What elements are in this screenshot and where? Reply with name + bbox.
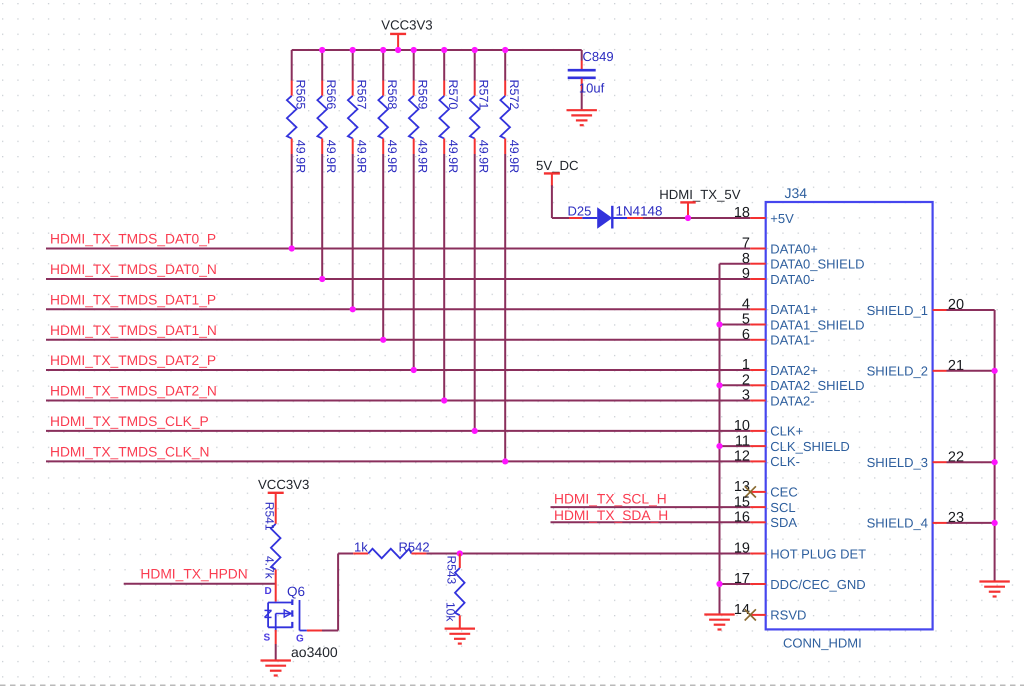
wire shield stub pin17 (720, 583, 751, 585)
pin 19 HOT PLUG DET (734, 541, 866, 562)
wire net HDMI_TX_TMDS_DAT2_P (46, 369, 750, 371)
svg-text:18: 18 (734, 205, 750, 221)
resistor R542 1k (338, 539, 429, 558)
wire page boundary dashes (0, 684, 1024, 686)
svg-text:C849: C849 (583, 49, 614, 64)
wire SHIELD_1 to shield ground (947, 309, 995, 311)
svg-text:15: 15 (734, 494, 750, 510)
node HDMI_TX_SDA_H label (554, 508, 668, 523)
pin 22 SHIELD_3 (867, 449, 964, 470)
svg-text:SHIELD_2: SHIELD_2 (867, 364, 928, 379)
pin 21 SHIELD_2 (867, 358, 964, 379)
svg-text:D25: D25 (568, 204, 592, 219)
connector J34 body (766, 185, 933, 651)
svg-text:10: 10 (734, 418, 750, 434)
svg-text:HDMI_TX_TMDS_DAT2_N: HDMI_TX_TMDS_DAT2_N (50, 384, 217, 399)
svg-text:DATA2_SHIELD: DATA2_SHIELD (770, 378, 864, 393)
node HDMI_TX_TMDS_DAT0_N label (50, 262, 217, 277)
wire net HDMI_TX_SCL_H (551, 506, 751, 508)
svg-text:5: 5 (742, 312, 750, 328)
node TMDS row junctions (289, 245, 509, 464)
resistor R569 49.9R (409, 50, 429, 370)
svg-text:17: 17 (734, 571, 750, 587)
resistor R566 49.9R (317, 50, 337, 279)
node junction R543 top (457, 550, 463, 556)
pin 4 DATA1+ (742, 297, 818, 318)
svg-text:R572: R572 (507, 80, 521, 110)
wire Q6 source to ground (275, 644, 277, 661)
pin 18 +5V (734, 205, 794, 226)
svg-text:DATA2-: DATA2- (770, 393, 814, 408)
resistor R571 49.9R (470, 50, 490, 431)
wire shield stub pin11 (720, 445, 751, 447)
svg-text:HDMI_TX_5V: HDMI_TX_5V (659, 187, 741, 202)
node junction HDMI_TX_5V (685, 215, 691, 221)
svg-text:49.9R: 49.9R (476, 140, 490, 173)
svg-text:S: S (264, 633, 271, 644)
svg-text:CLK-: CLK- (770, 454, 800, 469)
svg-text:SCL: SCL (770, 500, 795, 515)
svg-text:CLK+: CLK+ (770, 424, 803, 439)
resistor R570 49.9R (439, 50, 459, 401)
svg-text:13: 13 (734, 479, 750, 495)
svg-text:10uf: 10uf (579, 81, 605, 96)
svg-text:HDMI_TX_TMDS_DAT0_N: HDMI_TX_TMDS_DAT0_N (50, 262, 217, 277)
wire shield stub pin5 (720, 324, 751, 326)
svg-text:G: G (296, 634, 304, 645)
svg-text:49.9R: 49.9R (293, 140, 307, 173)
pin 11 CLK_SHIELD (735, 433, 850, 454)
pin 5 DATA1_SHIELD (742, 312, 865, 333)
resistor R541 4.7k (263, 502, 281, 602)
wire DATA0_SHIELD net (pin 8 to shield bus) (720, 264, 751, 615)
node HDMI_TX_TMDS_DAT1_N label (50, 323, 217, 338)
pin 10 CLK+ (734, 418, 803, 439)
ground under R543 (445, 629, 475, 644)
svg-text:3: 3 (742, 388, 750, 404)
svg-text:1k: 1k (354, 539, 368, 554)
svg-text:14: 14 (734, 602, 750, 618)
svg-text:1: 1 (742, 357, 750, 373)
pin 2 DATA2_SHIELD (742, 373, 865, 394)
pin 8 DATA0_SHIELD (742, 251, 865, 272)
wire 5V_DC to D25 (552, 185, 569, 218)
svg-text:SHIELD_3: SHIELD_3 (867, 455, 928, 470)
svg-text:49.9R: 49.9R (324, 140, 338, 173)
node right shield junctions (992, 368, 998, 526)
svg-text:10k: 10k (444, 602, 458, 622)
svg-text:+5V: +5V (770, 211, 794, 226)
node HDMI_TX_TMDS_DAT0_P label (50, 232, 216, 247)
svg-text:ao3400: ao3400 (291, 644, 338, 660)
svg-text:VCC3V3: VCC3V3 (381, 17, 432, 32)
resistor R567 49.9R (348, 50, 368, 309)
node HDMI_TX_TMDS_DAT2_P label (50, 353, 216, 368)
svg-text:5V_DC: 5V_DC (536, 158, 579, 173)
svg-text:HDMI_TX_SDA_H: HDMI_TX_SDA_H (554, 508, 668, 523)
svg-text:J34: J34 (785, 185, 808, 201)
svg-text:R571: R571 (476, 80, 490, 110)
pin 17 DDC/CEC_GND (734, 571, 866, 592)
svg-text:4.7k: 4.7k (263, 556, 277, 580)
svg-text:49.9R: 49.9R (354, 140, 368, 173)
ground shield bus (704, 615, 734, 630)
svg-text:49.9R: 49.9R (385, 140, 399, 173)
wire net HDMI_TX_TMDS_DAT1_P (46, 308, 750, 310)
svg-text:R567: R567 (354, 80, 368, 110)
ground under C849 (567, 110, 597, 125)
svg-text:11: 11 (735, 433, 750, 449)
svg-text:R565: R565 (293, 80, 307, 110)
svg-text:49.9R: 49.9R (446, 140, 460, 173)
wire net HDMI_TX_TMDS_DAT0_N (46, 278, 750, 280)
wire net HDMI_TX_SDA_H (551, 521, 751, 523)
svg-text:12: 12 (734, 449, 750, 465)
power symbol VCC3V3 (bottom) (258, 477, 309, 524)
ground right shield (979, 582, 1009, 597)
svg-text:DATA1+: DATA1+ (770, 302, 818, 317)
svg-text:Q6: Q6 (287, 584, 305, 599)
svg-text:SHIELD_4: SHIELD_4 (867, 516, 928, 531)
svg-text:9: 9 (742, 266, 750, 282)
svg-text:DATA1_SHIELD: DATA1_SHIELD (770, 317, 864, 332)
svg-text:HDMI_TX_SCL_H: HDMI_TX_SCL_H (554, 492, 667, 507)
svg-text:HDMI_TX_HPDN: HDMI_TX_HPDN (140, 567, 247, 582)
svg-text:VCC3V3: VCC3V3 (258, 477, 309, 492)
svg-text:CLK_SHIELD: CLK_SHIELD (770, 439, 849, 454)
svg-text:DATA1-: DATA1- (770, 333, 814, 348)
resistor R572 49.9R (500, 50, 520, 461)
svg-text:HDMI_TX_TMDS_DAT1_N: HDMI_TX_TMDS_DAT1_N (50, 323, 217, 338)
power symbol HDMI_TX_5V (659, 187, 741, 218)
power symbol 5V_DC (536, 158, 579, 186)
pin 15 SCL (734, 494, 796, 515)
pin 9 DATA0- (742, 266, 815, 287)
node HDMI_TX_SCL_H label (554, 492, 667, 507)
wire SHIELD_4 to shield ground (947, 522, 995, 524)
wire D25 to pin 18 (643, 217, 750, 219)
transistor Q6 ao3400 (264, 584, 338, 660)
pin 14 RSVD (734, 602, 807, 623)
svg-text:R566: R566 (324, 80, 338, 110)
ground under Q6 (261, 661, 291, 676)
svg-text:4: 4 (742, 297, 750, 313)
svg-text:19: 19 (734, 541, 750, 557)
wire SHIELD_2 to shield ground (947, 370, 995, 372)
svg-text:49.9R: 49.9R (415, 140, 429, 173)
svg-text:HDMI_TX_TMDS_DAT2_P: HDMI_TX_TMDS_DAT2_P (50, 353, 216, 368)
svg-text:R541: R541 (263, 502, 277, 531)
wire net HDMI_TX_TMDS_DAT1_N (46, 339, 750, 341)
wire R542 to pin 19 (426, 553, 750, 555)
pin 12 CLK- (734, 449, 800, 470)
svg-text:DATA0+: DATA0+ (770, 241, 818, 256)
wire net HDMI_TX_TMDS_DAT0_P (46, 248, 750, 250)
svg-text:DATA0-: DATA0- (770, 272, 814, 287)
svg-text:1N4148: 1N4148 (616, 204, 663, 219)
resistor R565 49.9R (287, 50, 307, 249)
node HDMI_TX_TMDS_DAT2_N label (50, 384, 217, 399)
node HDMI_TX_TMDS_DAT1_P label (50, 292, 216, 307)
svg-text:R543: R543 (445, 556, 459, 585)
wire shield stub pin2 (720, 384, 751, 386)
svg-text:6: 6 (742, 327, 750, 343)
node HDMI_TX_HPDN label (140, 567, 247, 582)
svg-text:HDMI_TX_TMDS_DAT1_P: HDMI_TX_TMDS_DAT1_P (50, 292, 216, 307)
svg-text:2: 2 (742, 373, 750, 389)
node shield bus junctions (716, 321, 722, 587)
pin 3 DATA2- (742, 388, 815, 409)
pin 20 SHIELD_1 (867, 297, 964, 318)
resistor R568 49.9R (378, 50, 398, 340)
svg-text:49.9R: 49.9R (507, 140, 521, 173)
node bus junctions (319, 47, 508, 53)
pin 16 SDA (734, 510, 797, 531)
svg-text:CONN_HDMI: CONN_HDMI (783, 636, 862, 651)
svg-text:8: 8 (742, 251, 750, 267)
wire net HDMI_TX_TMDS_CLK_P (46, 430, 750, 432)
wire Q6 gate riser (322, 554, 338, 631)
svg-text:DDC/CEC_GND: DDC/CEC_GND (770, 577, 865, 592)
wire SHIELD_3 to shield ground (947, 461, 995, 463)
svg-text:7: 7 (742, 236, 750, 252)
pin 1 DATA2+ (742, 357, 818, 378)
svg-text:SDA: SDA (770, 515, 797, 530)
svg-text:16: 16 (734, 510, 750, 526)
wire right shield vertical (994, 310, 996, 582)
pin 13 CEC (734, 479, 798, 500)
svg-text:DATA0_SHIELD: DATA0_SHIELD (770, 257, 864, 272)
pin 23 SHIELD_4 (867, 510, 964, 531)
node HDMI_TX_TMDS_CLK_P label (50, 414, 209, 429)
svg-text:D: D (265, 586, 272, 597)
power symbol VCC3V3 (top) (381, 17, 432, 50)
svg-text:CEC: CEC (770, 485, 797, 500)
pin 6 DATA1- (742, 327, 815, 348)
svg-text:R569: R569 (415, 80, 429, 110)
svg-text:SHIELD_1: SHIELD_1 (867, 303, 928, 318)
svg-text:RSVD: RSVD (770, 608, 806, 623)
wire VCC3V3 top bus (292, 49, 582, 51)
pin 7 DATA0+ (742, 236, 818, 257)
capacitor C849 10uf (568, 49, 614, 110)
svg-text:HOT PLUG DET: HOT PLUG DET (770, 546, 866, 561)
resistor R543 10k (444, 554, 465, 629)
svg-text:HDMI_TX_TMDS_CLK_N: HDMI_TX_TMDS_CLK_N (50, 444, 209, 459)
svg-text:HDMI_TX_TMDS_CLK_P: HDMI_TX_TMDS_CLK_P (50, 414, 209, 429)
diode D25 1N4148 (568, 204, 663, 229)
svg-text:R542: R542 (399, 539, 430, 554)
wire net HDMI_TX_TMDS_DAT2_N (46, 400, 750, 402)
svg-text:DATA2+: DATA2+ (770, 363, 818, 378)
node HDMI_TX_TMDS_CLK_N label (50, 444, 209, 459)
svg-text:R570: R570 (446, 80, 460, 110)
svg-text:R568: R568 (385, 80, 399, 110)
svg-text:HDMI_TX_TMDS_DAT0_P: HDMI_TX_TMDS_DAT0_P (50, 232, 216, 247)
wire net HDMI_TX_HPDN (124, 583, 277, 585)
wire net HDMI_TX_TMDS_CLK_N (46, 460, 750, 462)
